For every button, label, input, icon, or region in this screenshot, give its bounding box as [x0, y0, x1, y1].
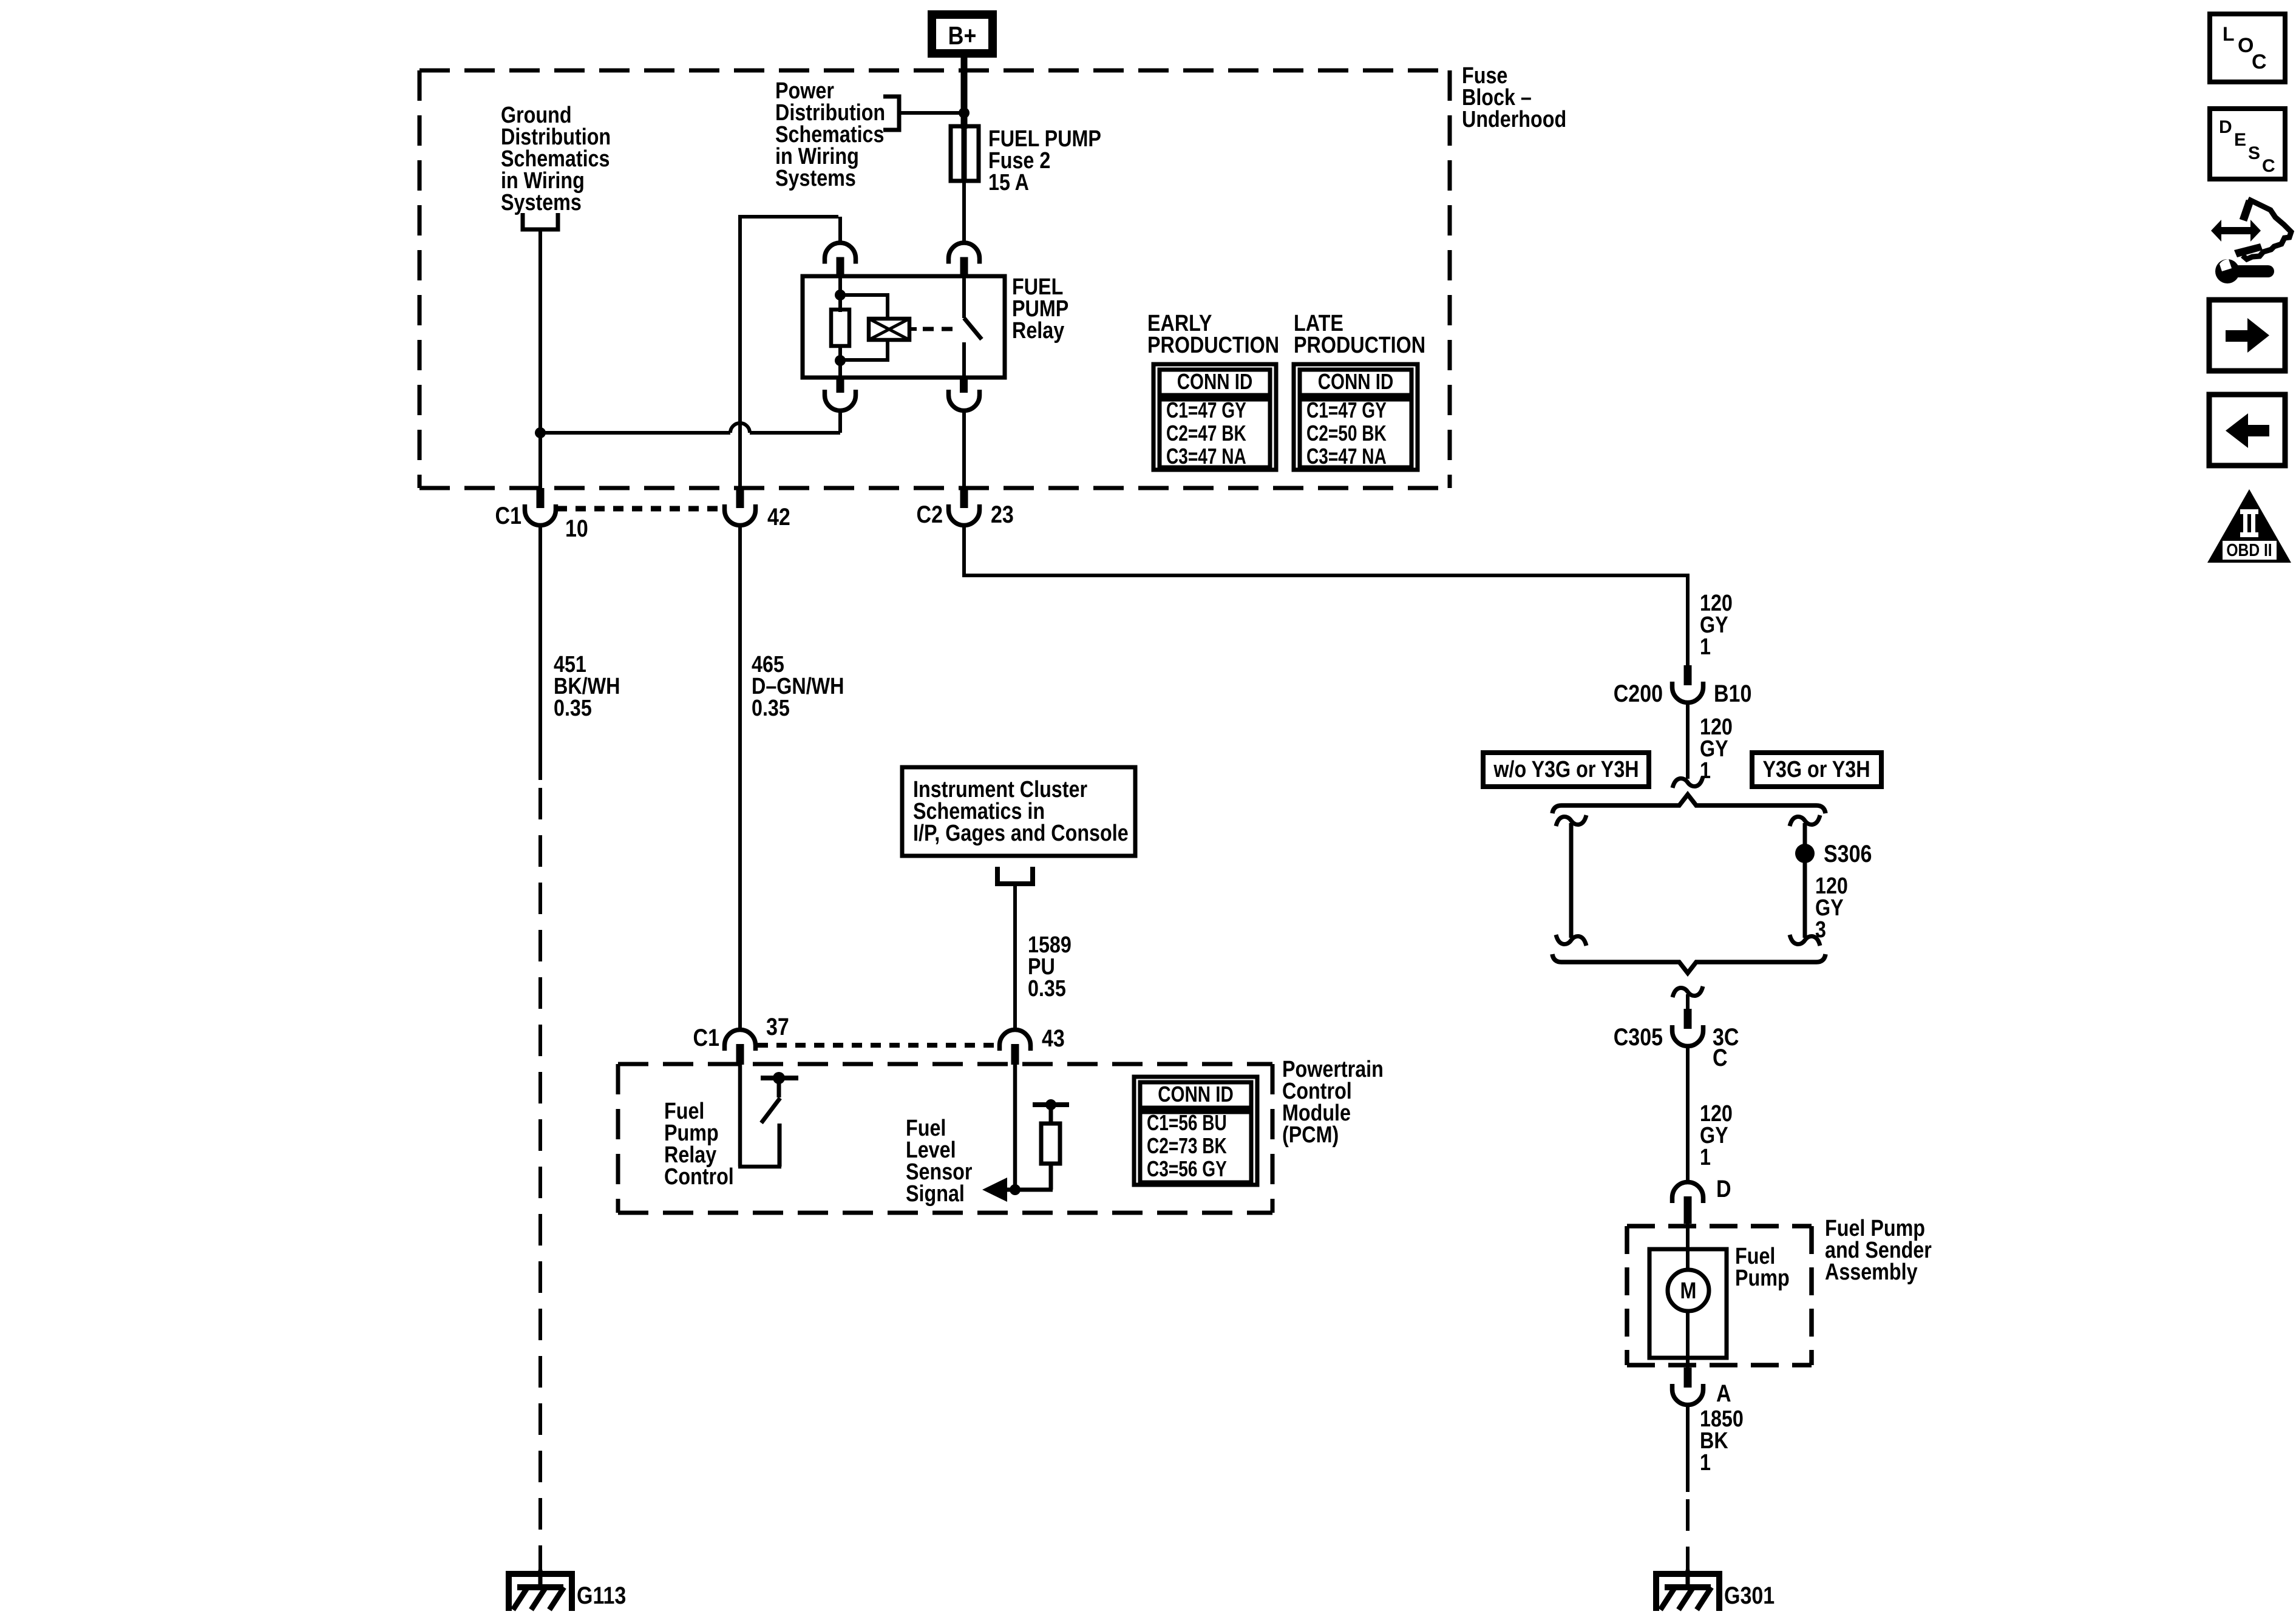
relay internal lead resistor to lower node — [838, 346, 842, 378]
svg-text:D: D — [1716, 1175, 1731, 1202]
wire C200 to option split — [1686, 702, 1690, 779]
svg-text:CONN ID: CONN ID — [1177, 369, 1253, 393]
label Fuel Pump and Sender Assembly — [1825, 1216, 1932, 1285]
svg-text:D: D — [2219, 117, 2232, 137]
label LATE PRODUCTION — [1294, 311, 1425, 358]
opening brace of option split — [1552, 795, 1826, 813]
connector pin 43 at PCM (dome) — [1000, 1030, 1031, 1065]
sidebar icon LOC — [2210, 14, 2285, 82]
break symbol below option merge — [1673, 986, 1703, 997]
table CONN ID late production — [1294, 364, 1418, 470]
svg-text:Signal: Signal — [906, 1181, 965, 1207]
junction node sensor signal — [1010, 1184, 1021, 1195]
label 37 — [766, 1012, 789, 1040]
bracket to Power Distribution Schematics — [883, 97, 899, 130]
svg-text:Y3G or Y3H: Y3G or Y3H — [1762, 757, 1870, 782]
label S306 — [1824, 839, 1872, 867]
label C1 at PCM — [693, 1023, 719, 1051]
label B10 — [1714, 679, 1751, 707]
relay mechanical link dashes — [909, 327, 953, 331]
svg-text:C3=56 GY: C3=56 GY — [1147, 1157, 1227, 1181]
connector pin 42 (cup) — [725, 488, 756, 526]
label Power Distribution Schematics in Wiring Systems — [775, 78, 885, 191]
svg-text:C2: C2 — [917, 500, 943, 527]
table CONN ID PCM — [1134, 1077, 1257, 1185]
svg-text:M: M — [1680, 1278, 1697, 1304]
svg-text:C1: C1 — [693, 1023, 719, 1051]
label Fuel Pump (inner) — [1735, 1244, 1790, 1291]
relay internal node lower — [835, 355, 846, 366]
inline connector at relay pin 85 (dome) — [825, 243, 856, 277]
svg-text:C1: C1 — [495, 501, 521, 529]
relay pin 85 bottom pin and connector (cup) — [825, 378, 856, 411]
svg-text:C1=56 BU: C1=56 BU — [1147, 1111, 1227, 1135]
wire 1589 PU from instrument cluster to PCM terminal 43 — [1013, 884, 1017, 1032]
closing brace of option split — [1552, 954, 1826, 973]
label 120 GY 1 (above C200) — [1700, 591, 1733, 660]
svg-text:I/P, Gages and Console: I/P, Gages and Console — [913, 821, 1129, 846]
label FUEL PUMP Fuse 2 15 A — [988, 126, 1101, 195]
relay internal node upper — [835, 290, 846, 300]
label C — [1713, 1043, 1728, 1071]
svg-text:PRODUCTION: PRODUCTION — [1147, 333, 1279, 358]
PCM dashed box — [618, 1064, 1272, 1213]
label 3C — [1713, 1023, 1739, 1050]
relay switch — [964, 277, 982, 378]
svg-text:C2=73 BK: C2=73 BK — [1147, 1134, 1227, 1158]
svg-text:C3=47 NA: C3=47 NA — [1166, 444, 1246, 469]
label C1 — [495, 501, 521, 529]
wire C2-23 down and across to right branch — [962, 525, 1688, 665]
wire 465 D-GN/WH from terminal 42 to PCM terminal 37 — [738, 525, 742, 1032]
connector C1 pin 37 at PCM (dome) — [725, 1030, 756, 1065]
svg-text:Underhood: Underhood — [1462, 107, 1566, 132]
svg-text:3: 3 — [1815, 917, 1826, 943]
option box w/o Y3G or Y3H — [1483, 753, 1649, 787]
svg-text:C2=50 BK: C2=50 BK — [1306, 421, 1387, 446]
svg-text:E: E — [2234, 130, 2246, 150]
wire 451 dashed continuation — [538, 788, 542, 1551]
svg-text:C: C — [2262, 156, 2275, 176]
svg-text:C1=47 GY: C1=47 GY — [1306, 398, 1387, 422]
right option branch wire Y3G — [1790, 815, 1820, 946]
svg-text:Control: Control — [664, 1164, 734, 1190]
table CONN ID early production — [1153, 364, 1276, 470]
svg-text:Systems: Systems — [501, 190, 582, 215]
label 120 GY 1 (above pump) — [1700, 1101, 1733, 1170]
label EARLY PRODUCTION — [1147, 311, 1279, 358]
svg-text:CONN ID: CONN ID — [1158, 1082, 1234, 1106]
fuse block dashed box (Fuse Block - Underhood) — [419, 70, 1450, 488]
wire connector D into pump — [1686, 1218, 1690, 1272]
label FUEL PUMP Relay — [1012, 274, 1068, 344]
svg-text:OBD II: OBD II — [2226, 540, 2272, 560]
bracket below instrument cluster box — [997, 867, 1033, 884]
wire 1850 BK solid segment — [1686, 1405, 1690, 1492]
signal arrowhead — [982, 1178, 1007, 1202]
sidebar icon hand with wrench — [2211, 199, 2291, 283]
break symbol at option split — [1673, 777, 1703, 788]
svg-text:C200: C200 — [1614, 679, 1663, 707]
relay coil branch wiring — [840, 293, 888, 362]
junction node on B+ feed — [959, 107, 970, 118]
wire 451 BK/WH solid segment — [538, 525, 542, 780]
wire fuse to relay switch-side connector — [962, 181, 966, 244]
PCM relay-driver switch — [738, 1072, 798, 1167]
svg-text:B+: B+ — [948, 22, 977, 50]
relay coil symbol (box with X) — [869, 319, 909, 340]
svg-text:L: L — [2223, 23, 2235, 45]
label 451 BK/WH 0.35 — [554, 652, 620, 721]
svg-text:G113: G113 — [577, 1581, 626, 1609]
svg-text:w/o Y3G or Y3H: w/o Y3G or Y3H — [1493, 757, 1639, 782]
label D — [1716, 1175, 1731, 1202]
svg-text:S: S — [2248, 143, 2260, 163]
wire 451 final segment to ground — [538, 1551, 542, 1573]
label 43 — [1042, 1024, 1065, 1051]
option box Y3G or Y3H — [1752, 753, 1881, 787]
fuel pump motor M — [1668, 1270, 1709, 1311]
svg-text:1: 1 — [1700, 1145, 1711, 1170]
sidebar icon OBD II triangle — [2207, 489, 2291, 563]
svg-text:C305: C305 — [1614, 1023, 1663, 1050]
wire 1850 dashed continuation — [1686, 1499, 1690, 1551]
label 1850 BK 1 — [1700, 1406, 1744, 1476]
connector C1 pin 10 (cup at fuse block edge) — [525, 488, 556, 526]
label C305 — [1614, 1023, 1663, 1050]
PCM resistor lead down — [1004, 1164, 1053, 1190]
svg-text:Systems: Systems — [775, 166, 856, 191]
svg-text:Pump: Pump — [1735, 1266, 1790, 1291]
label Fuel Pump Relay Control — [664, 1099, 734, 1190]
label 120 GY 3 — [1815, 873, 1848, 943]
ground G113 symbol — [506, 1570, 575, 1611]
label Fuel Level Sensor Signal — [906, 1116, 973, 1207]
label 1589 PU 0.35 — [1028, 932, 1072, 1002]
label G113 — [577, 1581, 626, 1609]
label 10 — [565, 514, 588, 541]
svg-text:(PCM): (PCM) — [1282, 1122, 1339, 1148]
wire relay 30 connector down to terminal C2-23 — [962, 410, 966, 489]
fuse F: FUEL PUMP Fuse 2 15A body — [951, 126, 979, 181]
svg-text:C2=47 BK: C2=47 BK — [1166, 421, 1246, 446]
svg-text:23: 23 — [991, 500, 1014, 527]
svg-text:PRODUCTION: PRODUCTION — [1294, 333, 1425, 358]
label G301 — [1724, 1581, 1775, 1609]
label Powertrain Control Module (PCM) — [1282, 1057, 1384, 1148]
svg-text:10: 10 — [565, 514, 588, 541]
wire ground distribution bracket down to terminal C1-10 — [538, 229, 542, 489]
wire terminal 37 into PCM switch — [738, 1064, 742, 1167]
bracket to Ground Distribution Schematics — [523, 213, 558, 229]
svg-text:G301: G301 — [1724, 1581, 1775, 1609]
wire motor to connector A — [1686, 1311, 1690, 1369]
fuel pump inner box — [1649, 1249, 1727, 1358]
svg-text:1: 1 — [1700, 1450, 1711, 1476]
wire relay 85 connector down to junction — [838, 410, 842, 433]
wire C305 to fuel pump connector D — [1686, 1046, 1690, 1182]
junction node on ground distribution wire — [535, 427, 546, 438]
label 42 — [767, 503, 790, 530]
svg-text:0.35: 0.35 — [1028, 976, 1066, 1002]
svg-text:37: 37 — [766, 1012, 789, 1040]
connector C305 pin 3C cavity C (cup) — [1673, 1009, 1703, 1046]
svg-text:S306: S306 — [1824, 839, 1872, 867]
label 465 D-GN/WH 0.35 — [752, 652, 844, 721]
sidebar icon arrow right — [2209, 300, 2285, 371]
wire from Power Distribution bracket to B+ feed — [899, 111, 964, 115]
connector D at fuel pump assembly (dome) — [1673, 1182, 1703, 1224]
svg-text:42: 42 — [767, 503, 790, 530]
svg-text:C3=47 NA: C3=47 NA — [1306, 444, 1387, 469]
wire junction horizontal to ground-distribution wire with hop over 465 — [540, 423, 840, 433]
sidebar icon DESC — [2210, 109, 2285, 179]
label Fuse Block - Underhood — [1462, 63, 1566, 132]
svg-text:15 A: 15 A — [988, 170, 1029, 195]
svg-text:43: 43 — [1042, 1024, 1065, 1051]
sidebar icon arrow left — [2209, 395, 2285, 466]
relay K: FUEL PUMP Relay box — [803, 276, 1005, 378]
ground G301 symbol — [1653, 1570, 1722, 1611]
wire 1850 final segment to ground — [1686, 1551, 1690, 1573]
connector C200 pin B10 (cup) — [1673, 665, 1703, 703]
dashed connector line C1 to 42 — [557, 506, 723, 512]
wire merge to C305 — [1686, 994, 1690, 1010]
label A — [1716, 1379, 1731, 1406]
instrument cluster reference box — [902, 767, 1135, 856]
splice S306 — [1795, 844, 1815, 863]
connector A (cup) — [1673, 1368, 1703, 1405]
label 120 GY 1 (below C200) — [1700, 714, 1733, 784]
wire relay coil-side n-route to terminal 42 — [738, 215, 840, 489]
svg-text:0.35: 0.35 — [752, 696, 790, 721]
svg-text:1: 1 — [1700, 634, 1711, 660]
svg-text:C1=47 GY: C1=47 GY — [1166, 398, 1246, 422]
dashed connector line 37 to 43 — [758, 1043, 999, 1048]
left option branch wire w/o Y3G — [1556, 815, 1586, 946]
label C200 — [1614, 679, 1663, 707]
svg-text:C: C — [1713, 1043, 1728, 1071]
svg-text:CONN ID: CONN ID — [1318, 369, 1394, 393]
relay internal resistor — [831, 310, 849, 346]
fuel pump and sender assembly dashed box — [1627, 1226, 1812, 1365]
connector C2 pin 23 (cup) — [949, 488, 980, 526]
wire B+ to fuse — [961, 58, 968, 129]
PCM fuel level sensor pull-up rail — [1033, 1099, 1069, 1124]
relay coil-side internal lead — [838, 277, 842, 312]
label C2 — [917, 500, 943, 527]
svg-text:0.35: 0.35 — [554, 696, 592, 721]
svg-text:C: C — [2252, 50, 2267, 73]
inline connector at relay pin 30 (dome) — [949, 243, 980, 277]
svg-text:A: A — [1716, 1379, 1731, 1406]
label 23 — [991, 500, 1014, 527]
PCM pull-up resistor — [1041, 1124, 1060, 1164]
power node B+ box — [928, 10, 997, 58]
relay pin 30 bottom pin and connector (cup) — [949, 378, 980, 411]
svg-text:Assembly: Assembly — [1825, 1259, 1918, 1285]
svg-text:B10: B10 — [1714, 679, 1751, 707]
wire terminal 43 into PCM sensor node — [1013, 1064, 1017, 1190]
svg-text:Relay: Relay — [1012, 318, 1065, 344]
label Ground Distribution Schematics in Wiring Systems — [501, 103, 611, 215]
